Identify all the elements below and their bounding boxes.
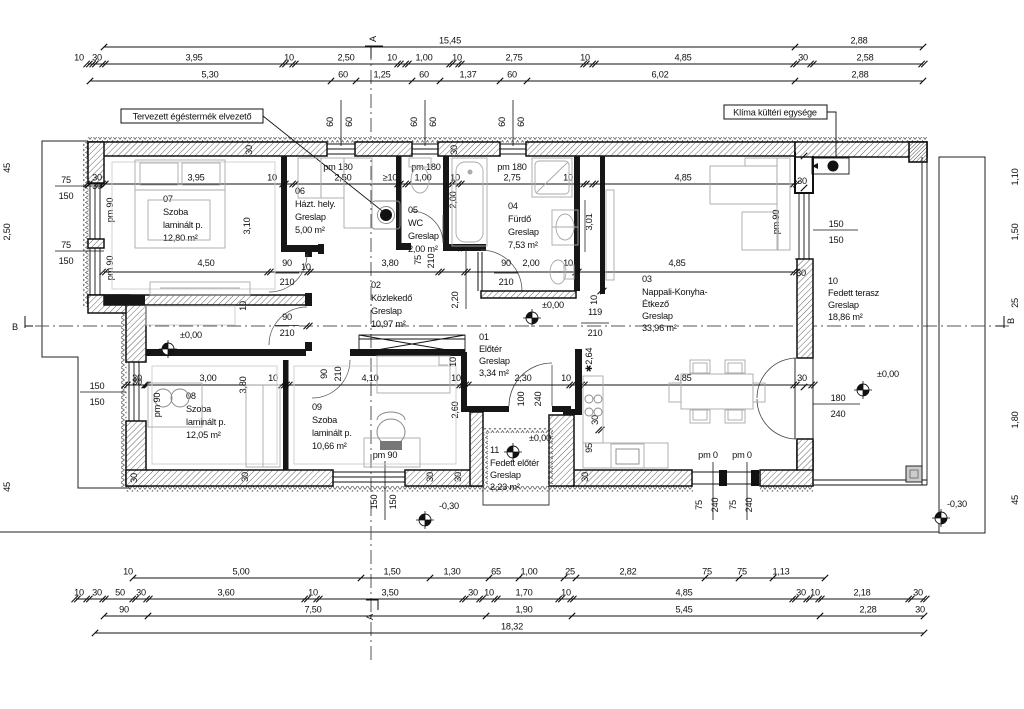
svg-text:2,28: 2,28 [859, 605, 876, 615]
bottom dim row 4: 18,32 [95, 632, 924, 634]
svg-text:210: 210 [426, 254, 436, 269]
180/240 door label [801, 384, 807, 390]
svg-text:10: 10 [580, 53, 590, 63]
svg-text:Greslap: Greslap [295, 212, 326, 222]
terrace top wall [795, 142, 927, 157]
door 08 arc lower [269, 307, 307, 345]
svg-text:1,00: 1,00 [520, 567, 537, 577]
svg-text:Greslap: Greslap [408, 231, 439, 241]
svg-text:1,10: 1,10 [1010, 168, 1020, 185]
svg-text:2,23 m²: 2,23 m² [490, 482, 520, 492]
svg-text:pm 0: pm 0 [732, 450, 752, 460]
svg-text:45: 45 [2, 482, 12, 492]
porch slab edge [483, 486, 549, 505]
150/150 window label right [813, 229, 858, 231]
svg-text:laminált p.: laminált p. [186, 417, 226, 427]
kitchen west wall [575, 349, 582, 411]
svg-text:pm 90: pm 90 [373, 450, 398, 460]
window W3 dim 60|60 above [512, 100, 514, 146]
porch inner zigzag [483, 428, 553, 433]
svg-text:90: 90 [319, 369, 329, 379]
svg-text:4,85: 4,85 [674, 173, 691, 183]
svg-text:2,60: 2,60 [450, 401, 460, 418]
room 08 floor outline [152, 366, 277, 464]
svg-text:01: 01 [479, 332, 489, 342]
terrain boundary left [42, 141, 131, 488]
svg-text:✱2,64: ✱2,64 [584, 348, 594, 373]
svg-text:30: 30 [425, 472, 435, 482]
section line A-A vertical dash-dot [370, 46, 372, 660]
svg-text:75: 75 [61, 240, 71, 250]
svg-text:pm 90: pm 90 [105, 198, 115, 223]
svg-text:3,95: 3,95 [185, 53, 202, 63]
svg-text:5,30: 5,30 [201, 70, 218, 80]
svg-text:30: 30 [453, 472, 463, 482]
svg-text:15,45: 15,45 [439, 36, 461, 46]
svg-text:45: 45 [2, 163, 12, 173]
svg-text:180: 180 [831, 393, 846, 403]
svg-text:95: 95 [584, 443, 594, 453]
terrace corner pillar [909, 142, 927, 162]
svg-text:pm 90: pm 90 [771, 210, 781, 235]
interior dim chain y=272 [104, 271, 795, 273]
room08 window label 150/150 [80, 391, 126, 393]
svg-text:30: 30 [240, 472, 250, 482]
wall 06 south [287, 245, 322, 252]
svg-text:65: 65 [491, 567, 501, 577]
window left-1 [88, 183, 104, 239]
fürdő radiator [584, 200, 586, 252]
svg-text:60: 60 [516, 117, 526, 127]
svg-text:±0,00: ±0,00 [877, 369, 899, 379]
svg-text:2,50: 2,50 [2, 223, 12, 240]
svg-text:10: 10 [828, 276, 838, 286]
room06 washer/dryer [298, 158, 321, 198]
svg-text:±0,00: ±0,00 [180, 330, 202, 340]
east wall below door corner [797, 439, 813, 470]
svg-text:30: 30 [92, 53, 102, 63]
top dim row 1: 15,45 / 2,88 [104, 46, 923, 48]
svg-text:210: 210 [280, 328, 295, 338]
fürdő shower [532, 158, 572, 197]
svg-text:240: 240 [710, 498, 720, 513]
svg-text:laminált p.: laminált p. [312, 428, 352, 438]
wall 05 south (WC) [396, 243, 411, 250]
svg-text:60: 60 [497, 117, 507, 127]
leader box: Tervezett égéstermék elvezető [121, 109, 263, 123]
porch opening edge lines [692, 471, 760, 473]
svg-text:Étkező: Étkező [642, 299, 669, 309]
svg-text:240: 240 [831, 409, 846, 419]
svg-text:10: 10 [563, 173, 573, 183]
svg-text:75: 75 [694, 500, 704, 510]
svg-text:2,88: 2,88 [850, 36, 867, 46]
svg-text:12,80 m²: 12,80 m² [163, 233, 198, 243]
svg-text:2,30: 2,30 [514, 373, 531, 383]
porch east wall [549, 415, 574, 486]
svg-text:10,97 m²: 10,97 m² [371, 319, 406, 329]
svg-text:Greslap: Greslap [371, 306, 402, 316]
svg-text:60: 60 [325, 117, 335, 127]
svg-text:4,85: 4,85 [674, 53, 691, 63]
svg-text:B: B [12, 322, 18, 332]
svg-text:Szoba: Szoba [312, 415, 338, 425]
svg-text:11: 11 [490, 445, 499, 455]
door 09 arc [312, 360, 350, 398]
svg-text:±0,00: ±0,00 [529, 433, 551, 443]
svg-text:75: 75 [728, 500, 738, 510]
kitchen stove [585, 395, 602, 416]
chimney box + dot in room06 [372, 201, 400, 229]
window W2 dim 60|60 above [424, 100, 426, 146]
svg-text:60: 60 [507, 70, 517, 80]
svg-text:10: 10 [589, 295, 599, 305]
window W1 dim 60|60 above [340, 100, 342, 146]
svg-text:25: 25 [1010, 298, 1020, 308]
svg-text:-0,30: -0,30 [439, 501, 459, 511]
svg-text:10: 10 [284, 53, 294, 63]
svg-text:2,00: 2,00 [448, 191, 458, 208]
svg-text:30: 30 [798, 53, 808, 63]
interior dim chain y=184 [88, 183, 795, 185]
svg-text:45: 45 [1010, 495, 1020, 505]
exterior wall top (with 3 window openings) [88, 142, 327, 156]
svg-text:60: 60 [428, 117, 438, 127]
bottom dim row 3 [104, 615, 924, 617]
window W1 60 top wall [327, 144, 355, 154]
svg-text:10: 10 [484, 588, 494, 598]
left wall window labels 75/150 [55, 185, 104, 187]
svg-text:30: 30 [92, 173, 102, 183]
room 09 floor outline [294, 366, 456, 464]
wall south of tub [445, 244, 486, 251]
svg-text:6,02: 6,02 [651, 70, 668, 80]
corridor north wall (07 south) [104, 295, 306, 305]
terrace south edge [813, 479, 927, 481]
svg-text:30: 30 [136, 588, 146, 598]
svg-text:02: 02 [371, 280, 381, 290]
exterior wall left lower step [88, 295, 130, 313]
svg-text:laminált p.: laminált p. [163, 220, 203, 230]
window room09 bottom wall pm90 [333, 472, 405, 482]
window left-2 [88, 248, 104, 295]
svg-text:119: 119 [588, 307, 602, 317]
svg-text:1,00: 1,00 [415, 53, 432, 63]
svg-text:2,58: 2,58 [856, 53, 873, 63]
svg-text:Greslap: Greslap [828, 300, 859, 310]
svg-text:2,75: 2,75 [503, 173, 520, 183]
svg-text:B: B [1006, 318, 1016, 324]
room 07 floor outline [112, 162, 275, 289]
svg-text:2,00: 2,00 [522, 258, 539, 268]
klíma unit box + dot [812, 158, 849, 174]
svg-text:10: 10 [74, 53, 84, 63]
svg-text:75: 75 [737, 567, 747, 577]
svg-text:30: 30 [913, 588, 923, 598]
WC toilet [409, 158, 431, 167]
house SE corner block [760, 441, 813, 486]
wall 07|06 [281, 156, 287, 252]
svg-text:1,25: 1,25 [373, 70, 390, 80]
svg-text:150: 150 [90, 381, 105, 391]
terrace east edge [921, 157, 923, 485]
svg-text:90: 90 [501, 258, 511, 268]
svg-text:±0,00: ±0,00 [542, 300, 564, 310]
section line B-B horizontal dash-dot [35, 325, 1010, 327]
svg-text:Greslap: Greslap [508, 227, 539, 237]
porch post 1 [719, 470, 727, 486]
svg-text:Klíma kültéri egysége: Klíma kültéri egysége [733, 108, 817, 118]
kitchen counter [583, 376, 603, 443]
svg-text:2,50: 2,50 [337, 53, 354, 63]
svg-text:Szoba: Szoba [186, 404, 212, 414]
svg-text:90: 90 [119, 605, 129, 615]
svg-text:Greslap: Greslap [479, 356, 510, 366]
svg-text:30: 30 [797, 373, 807, 383]
elotér south wall with door [467, 406, 509, 412]
fürdő wc [550, 260, 566, 284]
door 06/07 arc upper [269, 254, 307, 292]
nappali sofa L [710, 166, 777, 204]
svg-text:18,86 m²: 18,86 m² [828, 312, 863, 322]
svg-text:Greslap: Greslap [642, 311, 673, 321]
svg-text:2,88: 2,88 [851, 70, 868, 80]
svg-text:2,75: 2,75 [505, 53, 522, 63]
east wall window 150/150 [795, 193, 813, 259]
svg-text:3,60: 3,60 [217, 588, 234, 598]
svg-text:10: 10 [810, 588, 820, 598]
svg-text:150: 150 [388, 495, 398, 510]
wall 06|05 [396, 156, 402, 250]
svg-text:2,50: 2,50 [334, 173, 351, 183]
svg-text:1,13: 1,13 [772, 567, 789, 577]
window room08 left wall 150 [126, 362, 146, 421]
east wall pier hatched [797, 259, 813, 358]
svg-text:pm 180: pm 180 [497, 162, 527, 172]
svg-text:1,50: 1,50 [1010, 223, 1020, 240]
svg-text:33,96 m²: 33,96 m² [642, 323, 677, 333]
svg-text:WC: WC [408, 218, 423, 228]
svg-text:7,50: 7,50 [304, 605, 321, 615]
svg-text:10: 10 [452, 53, 462, 63]
svg-text:30: 30 [796, 268, 806, 278]
svg-text:30: 30 [468, 588, 478, 598]
svg-text:05: 05 [408, 205, 418, 215]
svg-text:150: 150 [369, 495, 379, 510]
corridor east edge line [465, 250, 467, 309]
room09 closet [377, 356, 450, 393]
room09 stove/pot [364, 438, 420, 467]
svg-text:pm 90: pm 90 [152, 393, 162, 418]
svg-text:2,18: 2,18 [853, 588, 870, 598]
svg-text:Szoba: Szoba [163, 207, 189, 217]
door WC arc [411, 211, 443, 243]
svg-text:3,00: 3,00 [199, 373, 216, 383]
terrain boundary right rectangle [939, 157, 985, 533]
svg-text:Fürdő: Fürdő [508, 214, 531, 224]
svg-text:60: 60 [338, 70, 348, 80]
svg-text:5,45: 5,45 [675, 605, 692, 615]
terrace drain square [906, 466, 922, 482]
attic ladder box [359, 335, 465, 353]
svg-text:2,20: 2,20 [450, 291, 460, 308]
svg-text:25: 25 [565, 567, 575, 577]
window W3 60 top wall [500, 144, 526, 154]
room08 wardrobe [246, 385, 280, 467]
fürdő tub [452, 158, 487, 246]
svg-text:30: 30 [129, 473, 139, 483]
svg-text:150: 150 [59, 191, 74, 201]
svg-text:10: 10 [238, 301, 248, 311]
svg-text:Tervezett égéstermék elvezető: Tervezett égéstermék elvezető [133, 112, 252, 122]
svg-text:30: 30 [796, 588, 806, 598]
wall nappali west [600, 156, 605, 294]
svg-text:90: 90 [282, 312, 292, 322]
interior dim chain y=385 [126, 384, 813, 386]
window W2 60 top wall [412, 144, 438, 154]
svg-text:60: 60 [419, 70, 429, 80]
svg-text:210: 210 [588, 328, 603, 338]
insulation zigzag bottom [126, 486, 693, 492]
nappali tv [606, 190, 614, 280]
svg-text:03: 03 [642, 274, 652, 284]
exterior wall bottom segments [126, 470, 333, 486]
terrain bottom line [0, 531, 939, 533]
svg-text:≥10: ≥10 [383, 173, 398, 183]
svg-text:30: 30 [244, 145, 254, 155]
svg-text:3,10: 3,10 [242, 217, 252, 234]
svg-text:10: 10 [123, 567, 133, 577]
svg-text:12,05 m²: 12,05 m² [186, 430, 221, 440]
svg-text:10: 10 [561, 588, 571, 598]
svg-text:10: 10 [74, 588, 84, 598]
exterior wall left (two windows) [88, 142, 104, 183]
svg-text:30: 30 [590, 415, 600, 425]
door 01->11 arc [509, 363, 552, 406]
corridor cabinet [146, 306, 235, 325]
svg-text:1,70: 1,70 [515, 588, 532, 598]
svg-text:Nappali-Konyha-: Nappali-Konyha- [642, 287, 708, 297]
svg-text:10: 10 [448, 357, 458, 367]
svg-text:4,85: 4,85 [675, 588, 692, 598]
svg-text:Fedett előtér: Fedett előtér [490, 458, 539, 468]
svg-text:2,00 m²: 2,00 m² [408, 244, 438, 254]
fürdő door jamb vertical [477, 252, 479, 291]
door fürdő arc [481, 250, 522, 291]
svg-text:30: 30 [915, 605, 925, 615]
svg-text:240: 240 [744, 498, 754, 513]
svg-text:Greslap: Greslap [490, 470, 521, 480]
svg-text:Előtér: Előtér [479, 344, 502, 354]
svg-text:1,80: 1,80 [1010, 411, 1020, 428]
svg-text:30: 30 [449, 145, 459, 155]
svg-text:18,32: 18,32 [501, 622, 523, 632]
east wall top piece [795, 152, 813, 193]
svg-text:Közlekedő: Közlekedő [371, 293, 412, 303]
svg-text:210: 210 [499, 277, 514, 287]
svg-text:210: 210 [333, 367, 343, 382]
svg-text:50: 50 [115, 588, 125, 598]
svg-text:150: 150 [829, 235, 844, 245]
svg-text:150: 150 [59, 256, 74, 266]
porch post 2 [751, 470, 759, 486]
svg-text:7,53 m²: 7,53 m² [508, 240, 538, 250]
svg-text:09: 09 [312, 402, 322, 412]
svg-text:Fedett terasz: Fedett terasz [828, 288, 880, 298]
insulation zigzag top [88, 137, 927, 143]
svg-text:10: 10 [267, 173, 277, 183]
svg-text:06: 06 [295, 186, 305, 196]
rooms 08/09 north wall [146, 349, 306, 356]
svg-text:pm 90: pm 90 [105, 256, 115, 281]
svg-text:30: 30 [92, 588, 102, 598]
wall 04 east [574, 156, 580, 291]
svg-text:4,50: 4,50 [197, 258, 214, 268]
fürdő south wall [481, 291, 576, 298]
svg-text:3,95: 3,95 [187, 173, 204, 183]
wall 05|04 [443, 156, 449, 251]
svg-text:1,50: 1,50 [383, 567, 400, 577]
insulation zigzag left upper [83, 142, 89, 307]
room07 bed [135, 160, 225, 248]
svg-text:1,37: 1,37 [459, 70, 476, 80]
svg-text:75: 75 [413, 255, 423, 265]
svg-text:5,00: 5,00 [232, 567, 249, 577]
svg-text:75: 75 [702, 567, 712, 577]
svg-text:100: 100 [516, 392, 526, 407]
wall 08|09 [283, 360, 289, 470]
svg-text:10: 10 [387, 53, 397, 63]
porch west wall [470, 412, 483, 486]
svg-text:2,82: 2,82 [619, 567, 636, 577]
svg-text:75: 75 [61, 175, 71, 185]
svg-text:3,50: 3,50 [381, 588, 398, 598]
terrace door 180/240 leaves [757, 358, 797, 398]
svg-text:3,34 m²: 3,34 m² [479, 368, 509, 378]
svg-text:30: 30 [132, 373, 142, 383]
svg-text:Házt. hely.: Házt. hely. [295, 199, 336, 209]
svg-text:5,00 m²: 5,00 m² [295, 225, 325, 235]
svg-text:3,80: 3,80 [381, 258, 398, 268]
dining table [681, 374, 753, 409]
fürdő sink [552, 210, 578, 245]
svg-text:1,30: 1,30 [443, 567, 460, 577]
svg-text:60: 60 [344, 117, 354, 127]
svg-text:4,10: 4,10 [361, 373, 378, 383]
svg-text:pm 0: pm 0 [698, 450, 718, 460]
svg-text:10: 10 [561, 373, 571, 383]
svg-text:150: 150 [90, 397, 105, 407]
insulation zigzag left lower [121, 300, 127, 487]
top dim row 2 [88, 63, 923, 65]
svg-text:07: 07 [163, 194, 173, 204]
svg-text:10,66 m²: 10,66 m² [312, 441, 347, 451]
leader box: Klíma kültéri egysége [724, 105, 827, 119]
svg-text:30: 30 [580, 472, 590, 482]
room08 crib [148, 383, 202, 427]
svg-text:4,85: 4,85 [668, 258, 685, 268]
svg-text:10: 10 [301, 262, 311, 272]
svg-text:10: 10 [268, 373, 278, 383]
svg-text:210: 210 [280, 277, 295, 287]
svg-text:60: 60 [409, 117, 419, 127]
bottom dim row 1 [133, 577, 825, 579]
svg-text:-0,30: -0,30 [947, 499, 967, 509]
svg-text:150: 150 [829, 219, 844, 229]
svg-text:04: 04 [508, 201, 518, 211]
svg-text:10: 10 [308, 588, 318, 598]
kitchen sink [611, 444, 644, 468]
